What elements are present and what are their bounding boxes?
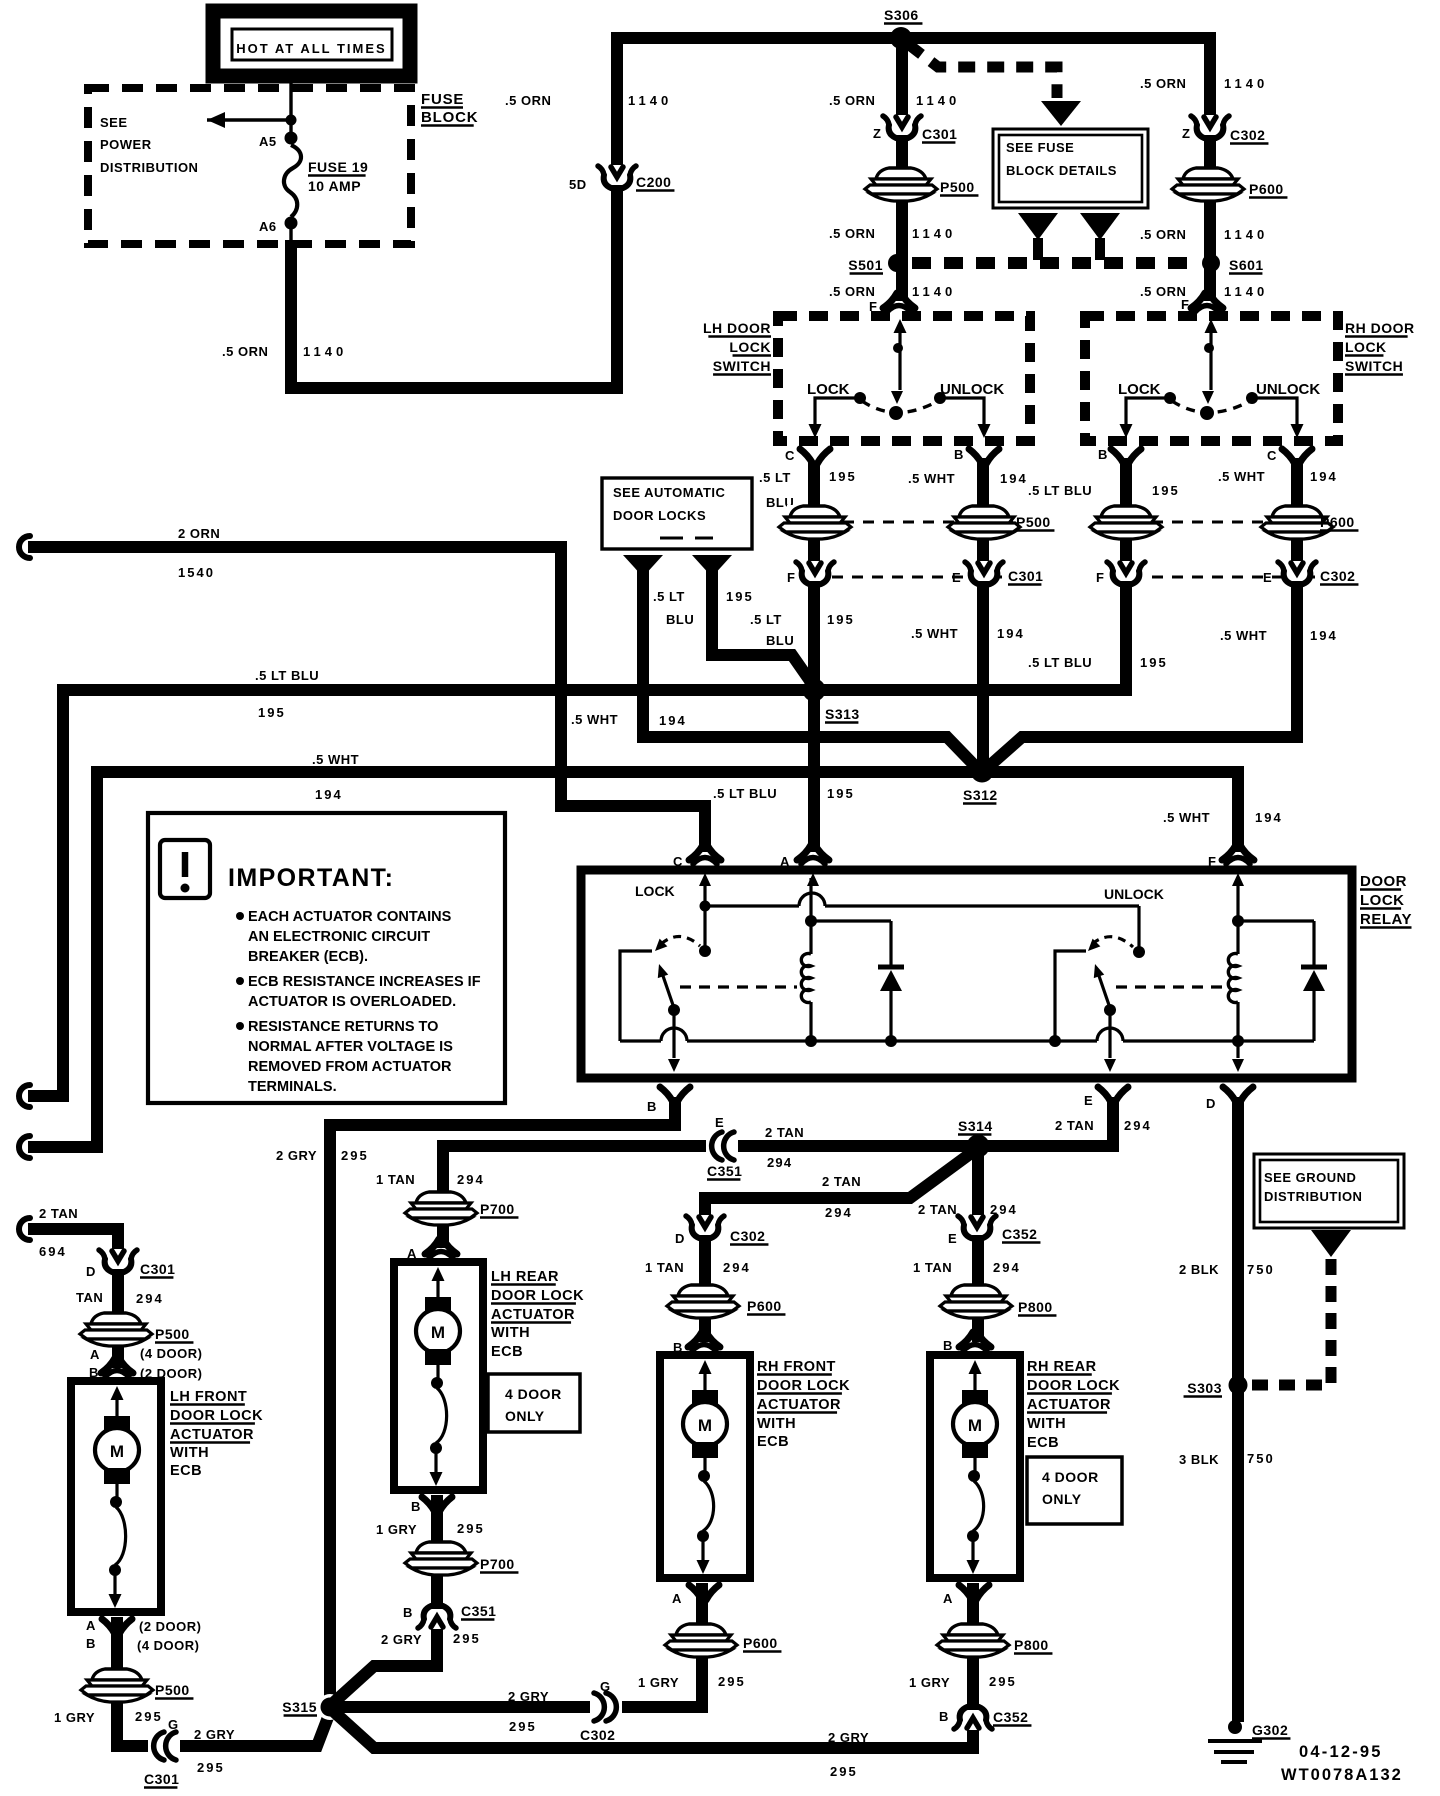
svg-text:.5 ORN: .5 ORN [829,93,875,108]
wire: dashed jumper S306 to fuse-block-details [908,44,1057,98]
connector C301 cavity D [99,1249,137,1273]
svg-text:1 GRY: 1 GRY [54,1710,95,1725]
splice S312 [971,760,994,783]
RH front door lock actuator box [660,1355,750,1578]
splice S313 [803,679,826,702]
wire 2 TAN 694 off-page to LH front feed [19,1218,30,1240]
wire .5 ORN 1140: S306 down to LH switch F [896,44,908,301]
relay: E output drop [1108,1010,1111,1058]
connector triangle into SEE FUSE BLOCK DETAILS [1041,101,1081,126]
svg-text:M: M [698,1416,712,1435]
wire 2 TAN 294: S314 down to RH rear feed [972,1152,984,1342]
svg-text:TERMINALS.: TERMINALS. [248,1079,337,1095]
svg-text:BLOCK DETAILS: BLOCK DETAILS [1006,163,1117,178]
svg-text:1 GRY: 1 GRY [638,1675,679,1690]
svg-text:195: 195 [1140,655,1168,670]
wire .5 WHT 194: LH switch B to S312 [977,458,989,768]
svg-text:G302: G302 [1252,1722,1288,1738]
svg-text:RH FRONT: RH FRONT [757,1359,836,1375]
SEE GROUND DISTRIBUTION box [1254,1154,1404,1228]
LH switch: wiper pivot [889,406,903,420]
wire: arrow to power distribution [207,118,291,121]
LH front door lock actuator box [71,1381,161,1612]
svg-text:UNLOCK: UNLOCK [1256,381,1320,398]
4 DOOR ONLY box RH [1027,1457,1122,1524]
4 DOOR ONLY box LH [488,1374,580,1432]
svg-text:1 GRY: 1 GRY [909,1675,950,1690]
RH switch: travel arc [1172,401,1250,413]
SEE FUSE BLOCK DETAILS box [993,129,1148,208]
svg-text:S303: S303 [1187,1380,1222,1396]
RH rear door lock actuator box [930,1355,1020,1578]
svg-text:WT0078A132: WT0078A132 [1281,1766,1403,1784]
wire 2 BLK 750: relay D to G302 [1232,1097,1244,1722]
relay: crossbar C to unlock contact with hop [705,904,799,907]
svg-text:C301: C301 [140,1261,175,1277]
relay: lock switch blade [668,1004,680,1016]
svg-text:NORMAL AFTER VOLTAGE IS: NORMAL AFTER VOLTAGE IS [248,1039,453,1055]
relay: unlock linkage dashed [1116,985,1224,988]
svg-text:LOCK: LOCK [807,381,850,398]
svg-text:D: D [675,1231,685,1246]
svg-text:POWER: POWER [100,137,152,152]
svg-text:P500: P500 [940,179,975,195]
svg-text:P800: P800 [1014,1637,1049,1653]
svg-text:A: A [780,854,790,869]
relay: unlock switch travel arc [1092,937,1133,947]
svg-text:294: 294 [767,1155,792,1170]
svg-text:694: 694 [39,1244,67,1259]
LH switch: feed arm [894,319,907,333]
svg-text:ACTUATOR: ACTUATOR [170,1427,254,1443]
svg-text:2 BLK: 2 BLK [1179,1262,1219,1277]
connector C302 cavity G [590,1692,622,1722]
svg-text:1140: 1140 [1224,227,1268,242]
svg-text:.5 ORN: .5 ORN [829,226,875,241]
svg-text:F: F [1208,854,1216,869]
svg-text:.5 ORN: .5 ORN [1140,284,1186,299]
relay: unlock pivot return wire [1055,951,1086,1041]
svg-text:ECB: ECB [757,1434,789,1450]
svg-text:.5 ORN: .5 ORN [222,344,268,359]
svg-text:AN ELECTRONIC CIRCUIT: AN ELECTRONIC CIRCUIT [248,929,430,945]
svg-text:1140: 1140 [628,93,672,108]
IMPORTANT note box [148,813,505,1103]
svg-text:LOCK: LOCK [635,883,675,899]
splice S314 [967,1135,990,1158]
svg-text:SWITCH: SWITCH [1345,358,1403,374]
svg-text:4 DOOR: 4 DOOR [505,1386,562,1402]
svg-text:04-12-95: 04-12-95 [1299,1743,1383,1761]
svg-text:195: 195 [726,589,754,604]
svg-text:DISTRIBUTION: DISTRIBUTION [100,160,198,175]
svg-text:195: 195 [829,469,857,484]
svg-text:C: C [673,854,683,869]
svg-text:LH FRONT: LH FRONT [170,1389,247,1405]
svg-text:IMPORTANT:: IMPORTANT: [228,864,394,892]
svg-text:FUSE: FUSE [421,91,464,108]
svg-text:P800: P800 [1018,1299,1053,1315]
connector C302 cavity D [686,1215,724,1239]
splice S501 [888,254,906,272]
svg-text:2 TAN: 2 TAN [765,1125,804,1140]
relay: D ground drop [1236,1041,1239,1058]
relay: lock linkage dashed [680,985,797,988]
svg-text:ONLY: ONLY [505,1408,545,1424]
svg-text:1140: 1140 [303,344,347,359]
svg-text:294: 294 [825,1205,853,1220]
svg-text:.5 LT: .5 LT [750,612,782,627]
relay: unlock clamp diode D2 [1238,919,1314,922]
svg-text:194: 194 [1310,469,1338,484]
svg-text:C: C [785,448,795,463]
svg-text:LOCK: LOCK [1345,339,1387,355]
connector C301 pair dashed link [832,576,1002,579]
svg-text:DOOR LOCK: DOOR LOCK [491,1288,584,1304]
svg-text:.5 LT BLU: .5 LT BLU [1028,655,1092,670]
svg-text:M: M [968,1416,982,1435]
svg-text:295: 295 [718,1674,746,1689]
RH switch: feed arm [1205,319,1218,333]
svg-text:F: F [787,570,795,585]
svg-text:.5 WHT: .5 WHT [1220,628,1267,643]
wire: banner feed into fuse block [289,79,292,133]
svg-text:B: B [411,1499,421,1514]
svg-text:P500: P500 [1016,514,1051,530]
svg-text:DOOR LOCK: DOOR LOCK [1027,1378,1120,1394]
node: fuse block feed junction [286,115,297,126]
RH door lock switch box [1085,316,1338,441]
connector C302 cavity Z [1191,115,1229,139]
svg-text:DOOR: DOOR [1360,873,1407,890]
svg-text:(2 DOOR): (2 DOOR) [139,1619,202,1634]
important icon [160,840,210,898]
svg-text:LOCK: LOCK [729,339,771,355]
connector C200 cavity 5D [598,165,636,189]
svg-text:C302: C302 [1320,568,1355,584]
wire 1 GRY 295: LH rear actuator to C351 B to S315 [332,1495,437,1704]
relay: A input arrow [807,873,819,886]
wire .5 LT BLU 195: RH switch B down to LT BLU rail [28,458,1126,1096]
wire 2 ORN 1540 from off-page to relay C [19,536,30,558]
connector P700 grommet lower [405,1541,477,1575]
svg-text:295: 295 [989,1674,1017,1689]
svg-text:.5 LT BLU: .5 LT BLU [255,668,319,683]
svg-text:S501: S501 [848,257,883,273]
svg-text:SEE GROUND: SEE GROUND [1264,1170,1356,1185]
svg-text:2 TAN: 2 TAN [918,1202,957,1217]
svg-text:ECB: ECB [170,1463,202,1479]
svg-text:.5 ORN: .5 ORN [505,93,551,108]
svg-text:ECB: ECB [1027,1435,1059,1451]
connector C351 cavity E [706,1131,738,1161]
svg-text:5D: 5D [569,177,587,192]
connector P600 grommet [1172,167,1244,201]
svg-text:ECB RESISTANCE INCREASES IF: ECB RESISTANCE INCREASES IF [248,974,481,990]
svg-text:G: G [600,1679,611,1694]
svg-text:BLOCK: BLOCK [421,109,478,126]
svg-text:P700: P700 [480,1556,515,1572]
svg-text:P600: P600 [1320,514,1355,530]
svg-text:1 TAN: 1 TAN [376,1172,415,1187]
svg-text:1 GRY: 1 GRY [376,1522,417,1537]
connector P800 grommet RH rear upper [940,1284,1012,1318]
svg-text:.5 ORN: .5 ORN [1140,76,1186,91]
svg-text:LOCK: LOCK [1118,381,1161,398]
svg-text:4 DOOR: 4 DOOR [1042,1469,1099,1485]
relay: unlock coil [1236,878,1239,954]
svg-text:195: 195 [258,705,286,720]
wire .5 ORN 1140: A6 down, right, up to top rail, to right branch [291,38,1210,388]
svg-text:WITH: WITH [757,1416,796,1432]
svg-text:294: 294 [1124,1118,1152,1133]
fuse block dashed box [88,88,411,244]
svg-text:ACTUATOR: ACTUATOR [1027,1397,1111,1413]
connector P600 grommet RH front lower [665,1623,737,1657]
svg-text:294: 294 [457,1172,485,1187]
pin A5 [285,132,298,145]
svg-text:UNLOCK: UNLOCK [940,381,1004,398]
RH switch: wiper pivot [1200,406,1214,420]
RH front actuator motor [699,1360,712,1374]
svg-text:C: C [1267,448,1277,463]
relay: F input arrow [1232,873,1244,886]
connector P600 grommet RH front upper [667,1284,739,1318]
svg-text:1140: 1140 [1224,76,1268,91]
wire 2 TAN 294: relay E to S314 to LH rear feed [443,1097,1113,1248]
wire .5 WHT 194: RH switch C down to S312 [987,458,1297,768]
relay: lock fixed contact [699,945,711,957]
svg-text:.5 WHT: .5 WHT [1218,469,1265,484]
svg-text:2 ORN: 2 ORN [178,526,220,541]
relay: lock pivot return wire [620,951,652,1041]
svg-text:RESISTANCE RETURNS TO: RESISTANCE RETURNS TO [248,1019,438,1035]
HOT AT ALL TIMES banner [213,11,410,76]
svg-text:.5 WHT: .5 WHT [312,752,359,767]
svg-text:TAN: TAN [76,1290,103,1305]
connector triangle auto-door-locks right [692,555,732,577]
svg-text:C301: C301 [1008,568,1043,584]
svg-text:294: 294 [136,1291,164,1306]
svg-text:A: A [672,1591,682,1606]
svg-text:Z: Z [873,126,881,141]
svg-text:.5 WHT: .5 WHT [911,626,958,641]
svg-text:A6: A6 [259,219,277,234]
svg-text:P500: P500 [155,1682,190,1698]
svg-text:750: 750 [1247,1451,1275,1466]
svg-text:2 TAN: 2 TAN [1055,1118,1094,1133]
LH front actuator motor [111,1386,124,1400]
svg-text:HOT AT ALL TIMES: HOT AT ALL TIMES [236,41,386,56]
svg-text:195: 195 [827,612,855,627]
svg-text:C301: C301 [144,1771,179,1787]
svg-text:E: E [1084,1093,1093,1108]
pin A6 [285,217,298,230]
svg-text:1140: 1140 [912,284,956,299]
wire .5 LT BLU 195: auto-lock right triangle to S313 [712,570,815,688]
connector triangle out left [1018,213,1058,240]
svg-text:A: A [943,1591,953,1606]
splice S601 [1202,254,1220,272]
svg-text:194: 194 [997,626,1025,641]
svg-text:2 TAN: 2 TAN [39,1206,78,1221]
svg-text:BREAKER (ECB).: BREAKER (ECB). [248,949,368,965]
svg-text:C302: C302 [1230,127,1265,143]
connector triangle auto-door-locks left [623,555,663,577]
connector P500 grommet LH-B [948,505,1020,539]
svg-text:BLU: BLU [666,612,694,627]
svg-text:B: B [403,1605,413,1620]
svg-text:S314: S314 [958,1118,993,1134]
svg-text:1 TAN: 1 TAN [913,1260,952,1275]
svg-text:295: 295 [197,1760,225,1775]
svg-text:S306: S306 [884,7,919,23]
connector P600 pair dashed link [1152,521,1315,524]
relay: B output drop [672,1010,675,1058]
svg-text:.5 WHT: .5 WHT [1163,810,1210,825]
svg-text:S312: S312 [963,787,998,803]
svg-text:2 GRY: 2 GRY [828,1730,869,1745]
door lock relay box [581,870,1352,1078]
connector C301 cavity G [148,1731,180,1761]
svg-text:Z: Z [1182,126,1190,141]
ground G302 [1228,1720,1242,1734]
svg-text:WITH: WITH [1027,1416,1066,1432]
svg-text:UNLOCK: UNLOCK [1104,886,1164,902]
svg-text:.5 LT: .5 LT [759,470,791,485]
svg-text:ACTUATOR: ACTUATOR [491,1307,575,1323]
connector C352 cavity E [958,1215,996,1239]
svg-text:C351: C351 [461,1603,496,1619]
svg-text:.5 ORN: .5 ORN [829,284,875,299]
svg-text:RELAY: RELAY [1360,911,1412,928]
wire 2 GRY 295: S315 to C352 B to RH rear actuator [332,1583,973,1748]
connector P700 grommet upper [405,1191,477,1225]
svg-text:M: M [431,1323,445,1342]
svg-text:SEE AUTOMATIC: SEE AUTOMATIC [613,485,726,500]
svg-text:B: B [647,1099,657,1114]
svg-text:10 AMP: 10 AMP [308,178,361,194]
svg-text:E: E [1263,570,1272,585]
svg-text:294: 294 [993,1260,1021,1275]
svg-text:D: D [1206,1096,1216,1111]
svg-text:P500: P500 [155,1326,190,1342]
connector P500 grommet LH front upper [80,1312,152,1346]
svg-text:194: 194 [659,713,687,728]
svg-text:A: A [90,1347,100,1362]
svg-text:1 TAN: 1 TAN [645,1260,684,1275]
wire .5 LT BLU 195: LH switch C to S313 and relay A [808,462,820,852]
relay: C input arm [699,873,711,886]
svg-text:295: 295 [830,1764,858,1779]
relay: lock coil [809,878,812,954]
svg-text:B: B [943,1338,953,1353]
svg-text:F: F [1096,570,1104,585]
hook of LT BLU rail off-page [19,1085,30,1107]
wire 2 TAN 294: S314 to RH front feed [705,1148,978,1342]
svg-text:194: 194 [1310,628,1338,643]
splice S306 [890,27,912,49]
LH rear actuator motor [432,1267,445,1281]
svg-text:B: B [1098,447,1108,462]
svg-text:.5 ORN: .5 ORN [1140,227,1186,242]
svg-text:195: 195 [1152,483,1180,498]
wire 2 GRY 295: relay B to S315 [330,1097,675,1700]
svg-text:.5 LT BLU: .5 LT BLU [713,786,777,801]
svg-text:SWITCH: SWITCH [713,358,771,374]
svg-text:S313: S313 [825,706,860,722]
svg-text:.5 LT BLU: .5 LT BLU [1028,483,1092,498]
svg-text:RH DOOR: RH DOOR [1345,320,1415,336]
connector C302 pair dashed link [1152,576,1315,579]
svg-text:2 TAN: 2 TAN [822,1174,861,1189]
svg-text:DOOR LOCK: DOOR LOCK [757,1378,850,1394]
svg-text:2 GRY: 2 GRY [194,1727,235,1742]
svg-text:DOOR LOCK: DOOR LOCK [170,1408,263,1424]
svg-text:295: 295 [509,1719,537,1734]
svg-text:.5 WHT: .5 WHT [908,471,955,486]
svg-text:2 GRY: 2 GRY [508,1689,549,1704]
svg-text:D: D [86,1264,96,1279]
svg-text:LH REAR: LH REAR [491,1269,559,1285]
svg-text:LOCK: LOCK [1360,892,1405,909]
RH rear actuator motor [969,1360,982,1374]
connector P500 grommet [865,167,937,201]
svg-text:G: G [168,1717,179,1732]
svg-text:C302: C302 [730,1228,765,1244]
svg-text:C352: C352 [993,1709,1028,1725]
svg-text:294: 294 [723,1260,751,1275]
svg-text:B: B [954,447,964,462]
svg-text:(4 DOOR): (4 DOOR) [140,1346,203,1361]
svg-text:ECB: ECB [491,1344,523,1360]
splice S315 [317,1694,343,1720]
wire 2 GRY 295: S315 to C302 G to RH front actuator [335,1583,702,1707]
svg-text:ONLY: ONLY [1042,1491,1082,1507]
wire 1 GRY 295: LH front actuator to C301 G to S315 [117,1617,330,1746]
svg-text:RH REAR: RH REAR [1027,1359,1097,1375]
svg-text:WITH: WITH [170,1445,209,1461]
svg-text:LH DOOR: LH DOOR [703,320,771,336]
svg-text:C352: C352 [1002,1226,1037,1242]
svg-text:E: E [715,1115,724,1130]
svg-text:1140: 1140 [1224,284,1268,299]
wire .5 WHT 194 rail from off-page to relay F [19,1136,30,1158]
svg-text:FUSE 19: FUSE 19 [308,159,368,175]
wire .5 WHT 194: auto-lock left triangle to S312 [643,570,977,768]
connector C351 cavity B [418,1605,456,1629]
svg-text:WITH: WITH [491,1325,530,1341]
wire: dashed ground jumper to S303 [1248,1259,1331,1385]
svg-text:ACTUATOR IS OVERLOADED.: ACTUATOR IS OVERLOADED. [248,994,456,1010]
connector P500 grommet LH-C [779,505,851,539]
svg-text:2 GRY: 2 GRY [276,1148,317,1163]
svg-text:C301: C301 [922,126,957,142]
svg-text:.5 LT: .5 LT [653,589,685,604]
svg-text:195: 195 [827,786,855,801]
svg-text:SEE FUSE: SEE FUSE [1006,140,1074,155]
wire: dashed .5 ORN jumper S501 to S601 [912,257,1198,269]
connector P500 grommet LH front lower [81,1668,153,1702]
svg-text:295: 295 [135,1709,163,1724]
splice S303 [1229,1376,1248,1395]
svg-text:2 GRY: 2 GRY [381,1632,422,1647]
relay: unlock switch blade [1104,1004,1116,1016]
svg-text:REMOVED FROM ACTUATOR: REMOVED FROM ACTUATOR [248,1059,452,1075]
connector triangle ground distribution [1311,1230,1351,1257]
svg-text:P600: P600 [743,1635,778,1651]
LH switch: travel arc [862,401,938,413]
